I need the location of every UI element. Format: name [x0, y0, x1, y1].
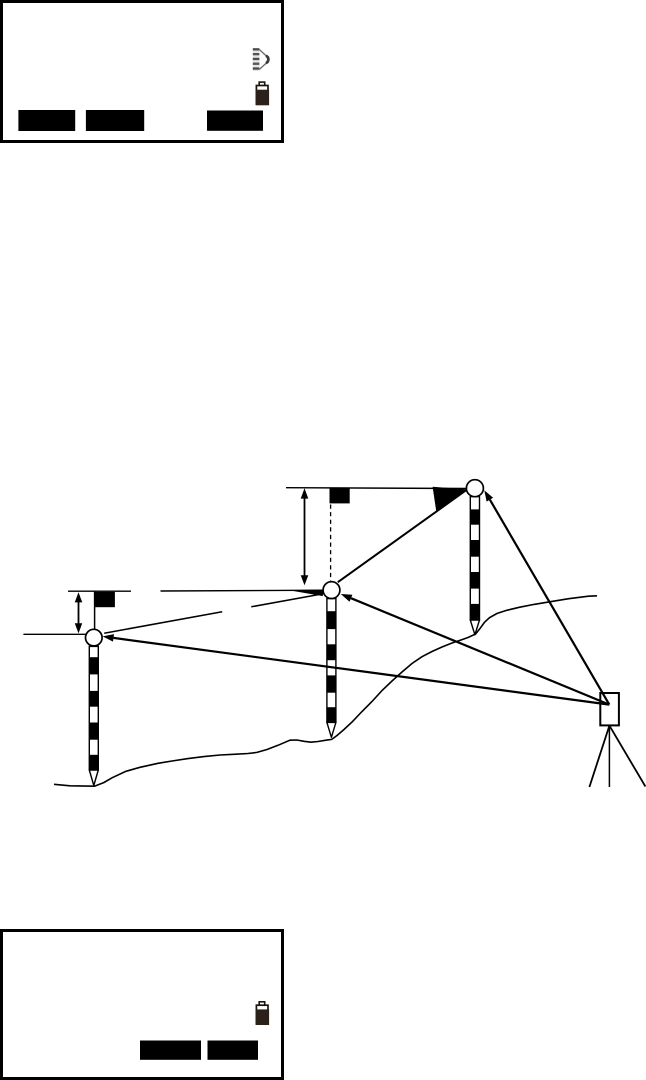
- diagram: tripod left leg: [589, 726, 609, 787]
- diagram: middle pennant flag: [288, 590, 323, 596]
- diagram: central vertical dimension double-arrow: [301, 488, 309, 585]
- diagram: middle horizontal reference line: [161, 589, 324, 592]
- diagram: tripod center leg: [608, 726, 610, 787]
- diagram: left-to-middle sight line segment 1: [104, 612, 222, 633]
- bottom screen softkey bar 1: [140, 1041, 201, 1060]
- diagram: station-to-topright ray: [484, 490, 609, 704]
- bottom screen softkey bar 2: [208, 1041, 259, 1060]
- diagram: station-to-middle ray: [341, 594, 610, 705]
- diagram: left-to-middle sight line segment 2: [251, 594, 323, 607]
- diagram: top-right prism circle: [466, 480, 483, 497]
- diagram: left staff pole: [89, 646, 98, 785]
- diagram: tripod right leg: [609, 726, 645, 787]
- diagram: middle-to-topright sight line: [338, 490, 467, 583]
- top screen softkey bar 3: [207, 111, 263, 131]
- diagram: right staff pole: [470, 497, 479, 635]
- top screen softkey bar 2: [86, 110, 144, 131]
- diagram: upper-left horizontal reference line: [68, 590, 131, 592]
- diagram: left black flag square: [95, 592, 115, 607]
- diagram: total station body: [600, 693, 619, 725]
- top LCD screen frame: [2, 2, 283, 142]
- diagram: dashed plumb line: [330, 505, 332, 589]
- diagram: left vertical dimension double-arrow: [75, 592, 83, 633]
- diagram: ground wavy line: [54, 596, 597, 786]
- top screen battery icon: [256, 82, 269, 105]
- diagram: top black square marker: [330, 488, 350, 503]
- diagram: middle staff pole: [327, 599, 336, 738]
- diagram: top-right pennant flag: [433, 487, 467, 512]
- diagram: top horizontal reference line: [286, 487, 467, 490]
- top screen target icon: [253, 48, 269, 71]
- diagram: lower-left horizontal reference line: [23, 633, 85, 635]
- top screen softkey bar 1: [18, 110, 75, 131]
- diagram: station-to-left ray: [103, 634, 610, 705]
- bottom screen battery icon: [256, 1002, 269, 1025]
- diagram: left flag pole: [94, 592, 96, 631]
- diagram: middle prism circle: [323, 582, 340, 599]
- diagram: left prism circle: [86, 629, 103, 646]
- bottom LCD screen frame: [2, 931, 283, 1079]
